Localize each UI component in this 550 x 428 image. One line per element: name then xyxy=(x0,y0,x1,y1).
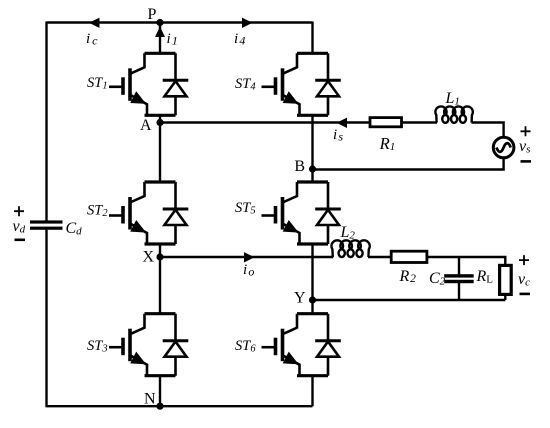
resistor RL xyxy=(500,265,512,294)
IGBT ST6 xyxy=(262,314,341,376)
svg-text:Y: Y xyxy=(294,290,306,307)
node X xyxy=(156,253,163,260)
wire output bottom node Y to RL xyxy=(313,299,506,301)
capacitor Cd xyxy=(30,220,63,229)
wire R1 to L1 xyxy=(402,121,438,123)
svg-text:P: P xyxy=(148,6,157,23)
wire right leg ST5 to ST6 through node Y xyxy=(311,244,313,314)
wire C2 branch upper xyxy=(458,257,460,274)
svg-text:io: io xyxy=(243,262,254,279)
inductor L2 xyxy=(331,240,369,257)
wire top rail P bus xyxy=(47,21,313,23)
wire left leg ST2 to ST3 through node X xyxy=(159,244,161,314)
label + of vc xyxy=(519,255,529,265)
svg-text:is: is xyxy=(333,127,343,144)
capacitor C2 xyxy=(444,274,474,283)
wire right leg ST4 to ST5 through node B xyxy=(311,115,313,182)
wire right leg ST6 to bottom rail xyxy=(311,376,313,407)
svg-text:X: X xyxy=(143,249,155,266)
label minus of vc xyxy=(520,293,531,296)
arrow ic on top rail xyxy=(89,18,100,28)
inductor L1 xyxy=(435,106,472,122)
svg-text:i4: i4 xyxy=(234,31,245,48)
arrow i1 xyxy=(155,27,165,38)
arrow is xyxy=(337,118,348,128)
label minus of vd xyxy=(15,239,26,242)
svg-text:N: N xyxy=(144,391,156,408)
IGBT ST4 xyxy=(262,53,341,115)
svg-text:i1: i1 xyxy=(167,31,178,48)
label minus of vs xyxy=(521,160,532,163)
resistor R1 xyxy=(370,118,402,127)
wire left DC link lower xyxy=(45,230,47,408)
node Y xyxy=(309,296,316,303)
IGBT ST3 xyxy=(109,314,188,376)
AC source vs xyxy=(493,137,514,158)
arrow i4 on top rail xyxy=(242,18,253,28)
wire L2 to R2 xyxy=(368,256,391,258)
arrow io xyxy=(244,252,255,262)
label + of vd xyxy=(14,206,24,216)
node B xyxy=(309,165,316,172)
node P xyxy=(156,19,163,26)
svg-text:A: A xyxy=(140,117,152,134)
IGBT ST2 xyxy=(109,182,188,244)
wire left leg ST3 to N xyxy=(159,376,161,407)
svg-text:ic: ic xyxy=(86,31,98,48)
node A xyxy=(156,119,163,126)
wire left leg P to ST1 xyxy=(159,23,161,54)
svg-text:B: B xyxy=(294,158,305,175)
wire left leg ST1 to ST2 through node A xyxy=(159,115,161,182)
wire R2 to RL corner xyxy=(427,257,505,266)
resistor R2 xyxy=(391,251,427,262)
wire right leg top corner to ST4 xyxy=(311,22,313,54)
IGBT ST1 xyxy=(109,53,188,115)
wire source to node B xyxy=(313,159,504,170)
wire L1 to source corner xyxy=(472,123,504,139)
wire left DC link upper xyxy=(45,22,47,221)
wire RL to output bottom xyxy=(504,294,506,300)
wire node A to R1 xyxy=(160,121,370,123)
wire C2 branch lower xyxy=(458,283,460,300)
wire bottom rail N bus xyxy=(47,405,313,407)
node N xyxy=(156,403,163,410)
wire node X to L2 xyxy=(160,256,333,258)
IGBT ST5 xyxy=(262,182,341,244)
label + of vs xyxy=(521,126,531,136)
